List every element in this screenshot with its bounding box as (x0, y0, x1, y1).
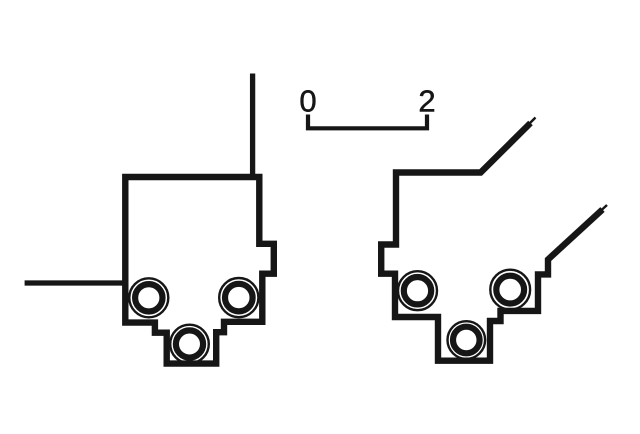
left profile attachment line (25, 280, 127, 285)
right profile perforation A ring (404, 277, 431, 304)
left profile perforation B ring (225, 284, 253, 312)
left profile rim axis line (250, 74, 255, 180)
left profile perforation C outer circle (170, 325, 209, 364)
right profile perforation C ring (453, 327, 480, 354)
right profile perforation C outer circle (448, 321, 486, 359)
right profile perforation A outer circle (398, 271, 437, 310)
left profile outline (125, 177, 273, 364)
right profile rim tip tick (529, 118, 536, 125)
left profile perforation A outer circle (129, 278, 168, 317)
right profile perforation B outer circle (490, 270, 530, 310)
left profile perforation C ring (176, 330, 203, 357)
left profile perforation B outer circle (219, 278, 258, 317)
left profile perforation A ring (135, 284, 162, 311)
svg-text:0: 0 (299, 83, 316, 118)
scale bar bracket (308, 115, 427, 129)
right profile outline (381, 123, 602, 361)
svg-text:2: 2 (418, 83, 435, 118)
right profile perforation B ring (496, 276, 524, 304)
right profile lower tip tick (601, 205, 607, 211)
